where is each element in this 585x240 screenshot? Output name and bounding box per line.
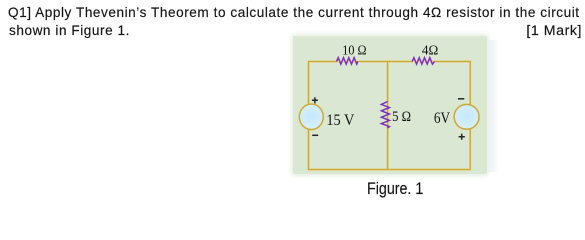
resistor R1 (10 ohm) zigzag <box>337 58 358 64</box>
wire: top-middle segment (R1 to R2 across node B) <box>358 61 413 63</box>
svg-text:5 Ω: 5 Ω <box>392 108 411 125</box>
figure background panel <box>293 36 487 174</box>
faint right-edge haze of figure image <box>487 40 498 172</box>
wire: top-left segment (node A to resistor R1) <box>309 62 471 170</box>
marks label <box>526 23 582 39</box>
wire: middle vertical branch (node B to node E) <box>387 62 389 170</box>
wire: right vertical branch for source V2 <box>469 62 471 170</box>
question text line 1 <box>8 5 580 20</box>
voltage source V2 (6 V) circle <box>454 104 479 129</box>
resistor R2 (4 ohm) zigzag <box>412 58 434 64</box>
voltage source V1 (15 V) circle <box>299 104 323 129</box>
plus sign of V1 <box>312 97 465 140</box>
minus sign of V2 <box>458 98 464 100</box>
svg-text:15 V: 15 V <box>326 112 355 129</box>
plus sign of V2 <box>459 134 465 140</box>
wire: top-right segment (R2 to node C) <box>435 61 470 63</box>
svg-text:10 Ω: 10 Ω <box>342 43 366 58</box>
figure caption <box>367 179 423 199</box>
question text line 2 <box>9 23 130 38</box>
wire halo glow layer <box>299 62 479 170</box>
wire: bottom segment (node D to node E to node F) <box>309 169 471 171</box>
svg-text:6V: 6V <box>434 110 451 127</box>
svg-text:4Ω: 4Ω <box>422 43 438 58</box>
minus sign of V1 <box>312 134 318 136</box>
wire: left vertical branch for source V1 <box>308 62 310 170</box>
resistor R3 (5 ohm) vertical zigzag <box>381 102 389 129</box>
